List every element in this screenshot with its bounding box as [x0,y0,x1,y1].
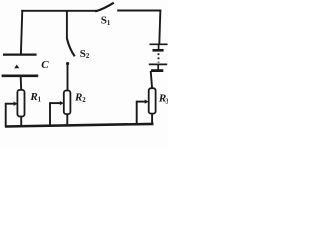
battery long plate 1 [150,43,168,45]
resistor R2 box [64,91,71,115]
wire R3 tap bracket vertical [136,101,138,125]
wire R3 bottom terminal [151,113,153,124]
wire bottom rail [5,124,154,127]
wire top rail right segment [117,10,161,12]
wire R1 tap with arrowhead [6,103,14,105]
svg-text:C: C [41,59,49,71]
capacitor C top plate [3,53,37,55]
wire R3 tap with arrowhead [137,101,145,103]
switch S1 left contact [95,10,97,12]
wire top rail left segment [21,10,96,12]
switch S1 blade [95,3,114,12]
wire R2 tap with arrowhead [50,102,60,104]
wire S2 lower segment [67,63,69,90]
switch S2 blade [67,38,75,56]
svg-text:R: R [29,91,37,103]
wire capacitor to R1 [20,76,23,90]
battery short plate 1 [153,49,164,52]
battery dotted cells [158,44,160,50]
wire R1 tap bracket vertical [5,103,7,127]
svg-text:2: 2 [82,97,86,104]
resistor R1 box [17,90,24,117]
wire right branch vertical [159,10,160,44]
wire R2 tap bracket vertical [49,102,51,125]
wire left branch vertical [21,10,22,54]
svg-text:R: R [74,92,82,104]
switch S2 lower contact [66,62,69,65]
wire R1 bottom terminal [20,117,22,127]
battery short plate 2 [151,69,163,72]
capacitor C polarity mark [14,65,19,69]
wire R2 bottom terminal [66,114,68,125]
wire S2 upper segment [66,10,68,39]
svg-text:3: 3 [165,99,168,106]
battery long plate 2 [149,63,167,65]
svg-text:1: 1 [38,97,42,104]
capacitor C bottom plate [2,75,39,78]
wire battery to R3 [151,71,152,88]
resistor R3 box [149,88,156,113]
